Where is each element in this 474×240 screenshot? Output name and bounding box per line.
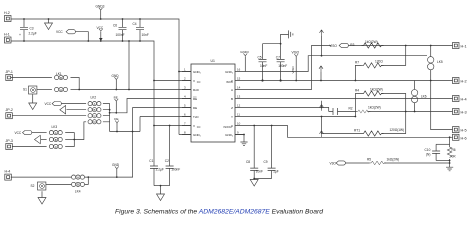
svg-text:A: A xyxy=(94,102,96,106)
svg-text:S1: S1 xyxy=(23,88,27,92)
svg-text:C5: C5 xyxy=(258,56,262,60)
svg-text:1kΩ(2W): 1kΩ(2W) xyxy=(370,88,383,92)
svg-text:A: A xyxy=(55,131,57,135)
svg-text:2.2µF: 2.2µF xyxy=(29,32,37,36)
svg-text:H-4: H-4 xyxy=(461,98,467,102)
svg-text:11: 11 xyxy=(237,113,240,117)
svg-text:GND₁: GND₁ xyxy=(193,133,201,137)
svg-text:RT1: RT1 xyxy=(354,128,360,132)
svg-text:H-6: H-6 xyxy=(461,136,467,140)
svg-text:10nF: 10nF xyxy=(256,170,263,174)
svg-text:U1: U1 xyxy=(211,59,215,63)
svg-text:2.2µF: 2.2µF xyxy=(156,168,164,172)
svg-text:V⁢: V⁢ xyxy=(193,124,195,128)
svg-text:GND3: GND3 xyxy=(96,5,105,9)
svg-text:16: 16 xyxy=(237,68,241,72)
svg-text:1kΩ(2W): 1kΩ(2W) xyxy=(368,105,381,109)
svg-text:C3: C3 xyxy=(30,27,34,31)
svg-text:C7: C7 xyxy=(276,56,280,60)
svg-text:100nF: 100nF xyxy=(116,33,125,37)
svg-text:JP-2: JP-2 xyxy=(6,108,13,112)
svg-text:10nF: 10nF xyxy=(260,64,267,68)
svg-text:CC: CC xyxy=(197,80,201,84)
svg-text:9: 9 xyxy=(237,131,239,135)
svg-text:Z: Z xyxy=(231,106,233,110)
svg-text:TxD: TxD xyxy=(193,115,199,119)
svg-text:LK3: LK3 xyxy=(52,125,58,129)
svg-text:R2: R2 xyxy=(349,106,353,110)
svg-text:100nF: 100nF xyxy=(171,168,180,172)
svg-text:4: 4 xyxy=(184,95,186,99)
svg-text:8: 8 xyxy=(184,131,186,135)
svg-text:H-3: H-3 xyxy=(461,111,467,115)
svg-text:3: 3 xyxy=(184,86,186,90)
svg-text:13: 13 xyxy=(237,95,241,99)
svg-text:B: B xyxy=(94,108,96,112)
svg-text:GND3: GND3 xyxy=(240,50,249,54)
svg-text:H-5: H-5 xyxy=(461,129,467,133)
svg-text:1kΩ(2W): 1kΩ(2W) xyxy=(387,158,400,162)
svg-text:GND₂: GND₂ xyxy=(225,133,234,137)
svg-text:RE: RE xyxy=(114,95,118,99)
svg-text:DE: DE xyxy=(114,117,118,121)
svg-text:0R: 0R xyxy=(452,155,457,159)
svg-text:A: A xyxy=(77,175,79,179)
svg-text:LK2: LK2 xyxy=(91,96,97,100)
svg-text:C8: C8 xyxy=(246,160,250,164)
svg-text:B: B xyxy=(231,97,233,101)
svg-text:LK5: LK5 xyxy=(437,60,443,64)
svg-text:DE: DE xyxy=(193,106,197,110)
svg-text:C1: C1 xyxy=(149,159,153,163)
svg-text:H-4: H-4 xyxy=(5,170,11,174)
svg-text:10: 10 xyxy=(237,122,241,126)
svg-text:H-1: H-1 xyxy=(4,33,10,37)
svg-text:GND₁: GND₁ xyxy=(193,70,201,74)
svg-text:V⁢: V⁢ xyxy=(193,79,195,83)
svg-text:A: A xyxy=(60,88,62,92)
svg-text:LK4: LK4 xyxy=(75,189,81,193)
svg-text:Figure 3. Schematics of the AD: Figure 3. Schematics of the ADM2682E/ADM… xyxy=(115,209,323,216)
svg-text:R3: R3 xyxy=(350,43,354,47)
svg-text:GND₂: GND₂ xyxy=(225,70,234,74)
svg-text:VCC: VCC xyxy=(97,26,104,30)
svg-text:A: A xyxy=(231,88,233,92)
svg-text:(N): (N) xyxy=(426,153,430,157)
svg-text:VISO: VISO xyxy=(291,66,295,74)
svg-text:120Ω: 120Ω xyxy=(375,59,383,63)
svg-text:100nF: 100nF xyxy=(278,64,287,68)
svg-text:R5: R5 xyxy=(367,158,371,162)
svg-text:R4: R4 xyxy=(355,88,359,92)
svg-text:7: 7 xyxy=(184,122,186,126)
svg-text:H-1: H-1 xyxy=(461,45,467,49)
svg-text:VCC: VCC xyxy=(45,102,52,106)
svg-text:2: 2 xyxy=(184,77,186,81)
svg-text:VCC: VCC xyxy=(56,30,63,34)
svg-text:C9: C9 xyxy=(264,160,268,164)
svg-text:6: 6 xyxy=(184,113,186,117)
svg-text:H-2: H-2 xyxy=(4,11,10,15)
svg-text:C2: C2 xyxy=(165,159,169,163)
svg-text:RxD: RxD xyxy=(193,88,200,92)
svg-text:14: 14 xyxy=(237,86,241,90)
svg-text:B: B xyxy=(55,138,57,142)
svg-text:B: B xyxy=(77,183,79,187)
svg-text:15: 15 xyxy=(237,77,241,81)
svg-text:120Ω(1W): 120Ω(1W) xyxy=(390,128,405,132)
svg-text:R6: R6 xyxy=(452,148,456,152)
svg-text:VCC: VCC xyxy=(15,131,22,135)
svg-text:JP-3: JP-3 xyxy=(6,139,13,143)
svg-text:ISOIN: ISOIN xyxy=(226,81,233,84)
svg-text:ISOOUT: ISOOUT xyxy=(223,126,233,129)
svg-text:12: 12 xyxy=(237,104,241,108)
svg-text:+: + xyxy=(19,33,21,37)
svg-text:H-2: H-2 xyxy=(461,80,467,84)
svg-text:S2: S2 xyxy=(31,184,35,188)
svg-text:Y: Y xyxy=(231,115,233,119)
svg-text:R7: R7 xyxy=(355,60,359,64)
svg-text:1kΩ(2W): 1kΩ(2W) xyxy=(365,40,378,44)
svg-text:CC: CC xyxy=(197,125,201,129)
svg-text:VISO: VISO xyxy=(329,44,337,48)
svg-text:5: 5 xyxy=(184,104,186,108)
svg-text:C6: C6 xyxy=(113,23,117,27)
svg-text:VISO: VISO xyxy=(292,50,300,54)
svg-text:10nF: 10nF xyxy=(142,33,149,37)
svg-text:RE: RE xyxy=(193,97,197,101)
svg-text:LK6: LK6 xyxy=(421,94,427,98)
svg-text:C10: C10 xyxy=(425,148,431,152)
svg-text:1: 1 xyxy=(184,68,186,72)
svg-text:C4: C4 xyxy=(133,22,137,26)
svg-text:JP-1: JP-1 xyxy=(6,70,13,74)
svg-text:V3O: V3O xyxy=(330,162,337,166)
svg-text:1µF: 1µF xyxy=(273,170,279,174)
svg-text:B: B xyxy=(60,76,62,80)
